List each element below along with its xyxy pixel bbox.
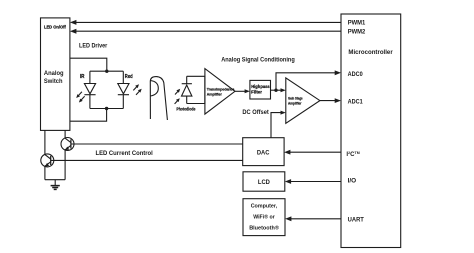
wire I/O micro to LCD: [289, 181, 341, 183]
arrowhead into gain amp plus input: [281, 88, 286, 92]
svg-text:Bluetooth®: Bluetooth®: [249, 224, 279, 231]
node LED loop bottom junction: [105, 107, 108, 110]
LED D1 IR branch: [89, 71, 91, 83]
svg-text:Analog: Analog: [44, 71, 64, 77]
wire LED current control lower: [51, 159, 243, 161]
computer box: [243, 199, 285, 236]
arrowhead PWM2 into switch: [70, 29, 77, 34]
arrowhead into ADC1: [335, 98, 341, 103]
photodiode D3: [186, 76, 188, 83]
transistor Q2: [41, 154, 54, 167]
svg-text:Analog Signal Conditioning: Analog Signal Conditioning: [221, 56, 295, 63]
arrowhead I2C into DAC: [284, 150, 290, 155]
wire highpass to gain amp: [271, 89, 282, 91]
photodiode bracket wires: [187, 76, 205, 103]
wire gain amp to ADC1: [320, 100, 337, 102]
LED loop bottom rail: [90, 108, 123, 110]
microcontroller box U1: [341, 14, 401, 248]
svg-text:LED Current Control: LED Current Control: [96, 150, 154, 157]
arrowhead emitter Q2: [45, 163, 49, 167]
arrowhead I/O into LCD: [285, 179, 291, 184]
svg-text:Filter: Filter: [251, 90, 262, 95]
arrowhead IR light 2: [79, 96, 85, 102]
wire PWM1: [75, 21, 341, 23]
transistor Q1: [61, 138, 74, 151]
wire junction to ADC0: [276, 73, 337, 90]
svg-text:WiFi® or: WiFi® or: [253, 214, 275, 221]
svg-text:Microcontroller: Microcontroller: [348, 49, 393, 56]
svg-text:ADC0: ADC0: [348, 71, 364, 78]
DAC box: [243, 138, 284, 166]
wire UART micro to computer: [290, 218, 341, 220]
svg-text:UART: UART: [348, 217, 365, 224]
svg-text:LED Driver: LED Driver: [79, 42, 108, 49]
svg-text:DC Offset: DC Offset: [242, 109, 268, 116]
arrowhead Red light 1: [133, 84, 139, 90]
LED D2 Red branch: [122, 71, 124, 83]
wire emitter rail: [45, 179, 65, 181]
svg-text:PWM1: PWM1: [348, 19, 366, 26]
svg-text:Switch: Switch: [44, 79, 63, 85]
finger: [150, 77, 167, 120]
ground: [54, 180, 56, 186]
op-amp U3 gain stage amplifier: [286, 78, 320, 123]
arrowhead photodiode light 2: [175, 98, 180, 104]
LED loop top rail: [90, 70, 123, 72]
arrowhead PWM1 into switch: [70, 20, 77, 25]
wire PWM2: [75, 30, 341, 32]
wire DC offset from DAC to gain amp: [271, 113, 281, 138]
svg-text:IR: IR: [80, 74, 85, 80]
svg-text:LCD: LCD: [258, 179, 270, 186]
node junction: [274, 89, 277, 92]
svg-text:PWM2: PWM2: [348, 28, 366, 35]
wire I2C micro to DAC: [289, 151, 341, 153]
LCD box: [243, 172, 285, 191]
wire LED loop bottom to switch: [70, 109, 107, 122]
svg-text:Photodiode: Photodiode: [176, 106, 196, 111]
svg-text:Gain Stage: Gain Stage: [288, 97, 303, 101]
arrowhead UART into computer: [285, 216, 291, 221]
arrowhead into highpass filter: [245, 89, 250, 93]
wire amp to highpass filter: [235, 90, 245, 92]
svg-text:I/O: I/O: [348, 178, 357, 185]
wire switch to LED loop top: [70, 58, 107, 71]
analog switch box: [41, 18, 70, 130]
arrowhead IR light 1: [76, 92, 82, 98]
arrowhead Red light 2: [136, 89, 142, 95]
svg-text:LED On/Off: LED On/Off: [44, 25, 66, 30]
svg-text:Amplifier: Amplifier: [288, 102, 302, 106]
arrowhead emitter Q1: [65, 147, 69, 151]
highpass filter box: [250, 80, 271, 99]
wire LED current control upper: [71, 143, 243, 145]
svg-text:Highpass: Highpass: [251, 84, 270, 89]
arrowhead photodiode light 1: [175, 89, 180, 95]
arrowhead into ADC0: [335, 70, 341, 75]
node LED loop top junction: [105, 70, 108, 73]
arrowhead DC offset into gain amp: [281, 111, 286, 115]
op-amp U2 transimpedance amplifier: [205, 69, 235, 115]
svg-text:Computer,: Computer,: [251, 203, 278, 209]
svg-text:DAC: DAC: [257, 150, 270, 157]
svg-text:Amplifier: Amplifier: [207, 93, 223, 97]
svg-text:ADC1: ADC1: [348, 98, 364, 105]
svg-text:Red: Red: [125, 74, 133, 80]
svg-text:Transimpedance: Transimpedance: [207, 88, 235, 92]
